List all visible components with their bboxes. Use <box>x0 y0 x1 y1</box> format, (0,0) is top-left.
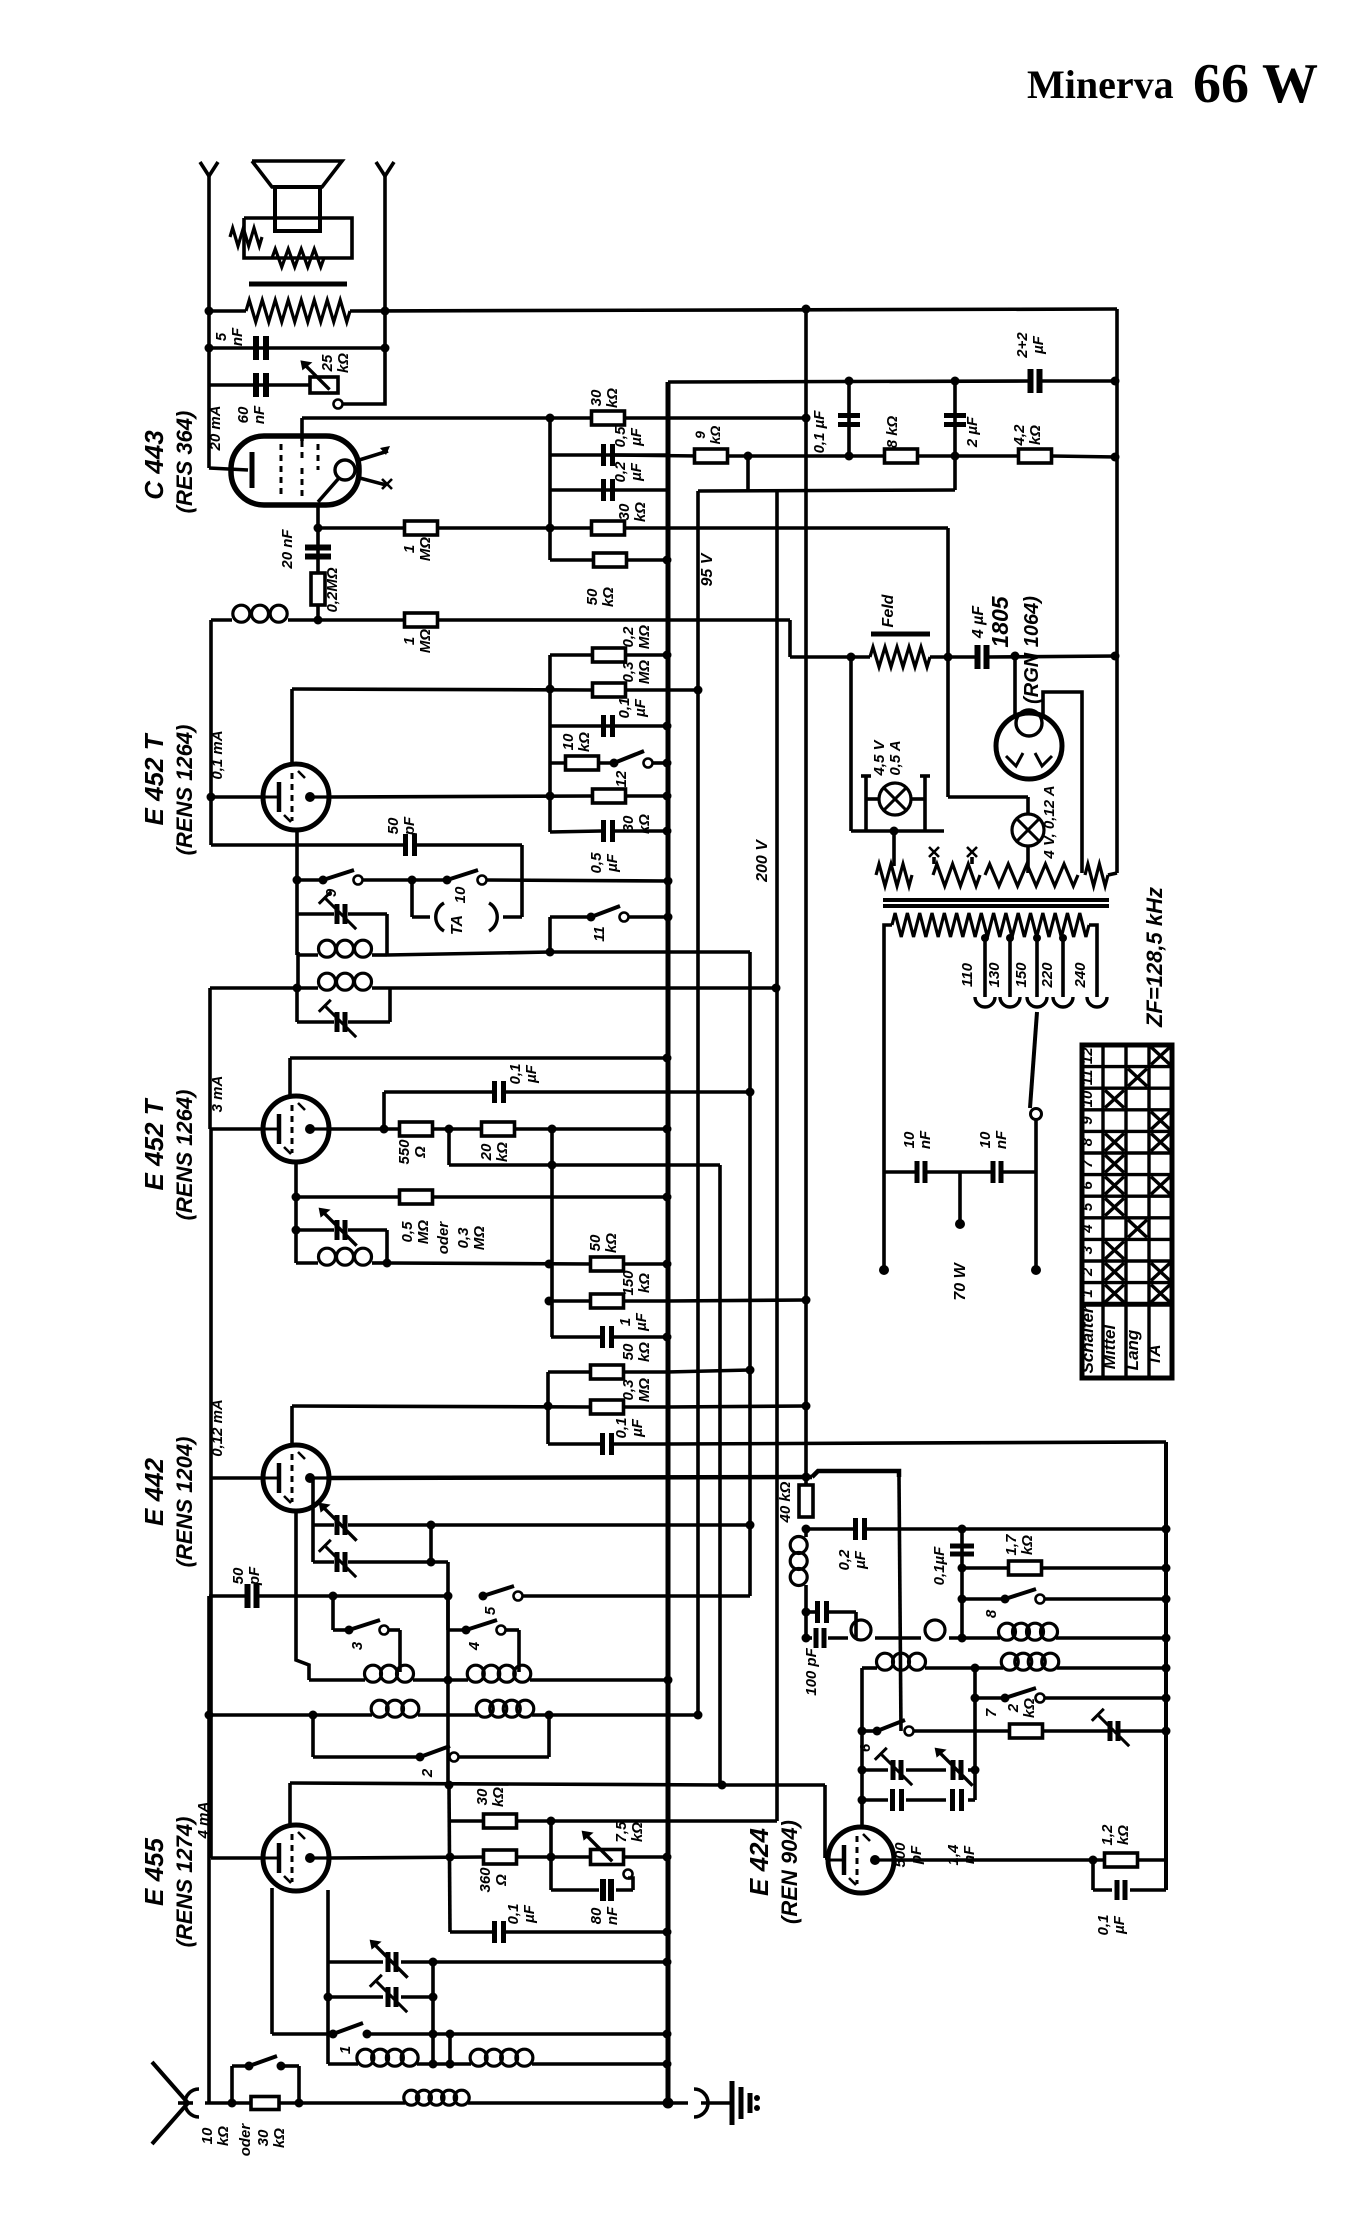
feld overbar <box>871 632 930 637</box>
svg-text:pF: pF <box>246 1566 263 1586</box>
node 698/690 <box>694 686 703 695</box>
svg-text:0,2MΩ: 0,2MΩ <box>324 567 341 612</box>
node bus 917 <box>664 913 673 922</box>
svg-text:0,5: 0,5 <box>588 852 605 874</box>
capacitor 100 pF <box>815 1601 820 1623</box>
resistor 1.2 kOhm <box>1105 1853 1138 1867</box>
node 551/1821 <box>547 1817 556 1826</box>
resistor 50 kOhm a <box>594 553 627 567</box>
line AVC x=806 <box>804 309 808 1477</box>
wire y=1932 <box>450 1930 492 1934</box>
wire y=831 <box>851 829 944 833</box>
switch 8 <box>1001 1595 1010 1604</box>
node 448/1680 <box>444 1676 453 1685</box>
svg-text:30: 30 <box>616 503 633 520</box>
padder loop left <box>311 1478 315 1562</box>
switch 11 feed <box>548 917 552 952</box>
ground bus x=668 <box>666 382 671 2103</box>
svg-text:(RENS 1274): (RENS 1274) <box>172 1817 197 1948</box>
vertical x=548 <box>546 1372 550 1444</box>
wire y=845 50pF row <box>211 843 404 847</box>
svg-text:1: 1 <box>337 2046 354 2054</box>
svg-text:nF: nF <box>993 1130 1010 1149</box>
wire left y=1129 <box>211 1127 263 1131</box>
coil D <box>476 1700 493 1717</box>
node 431/1562 <box>427 1558 436 1567</box>
prong 110 <box>975 997 995 1007</box>
svg-text:kΩ: kΩ <box>490 1787 507 1807</box>
wire y=1444 right long <box>667 1442 1166 1444</box>
wire y=1596 <box>209 1594 246 1598</box>
voice coil zigzag <box>272 249 324 267</box>
wire to earth <box>668 2101 688 2105</box>
svg-text:TA: TA <box>449 915 466 935</box>
svg-text:70 W: 70 W <box>952 1261 969 1300</box>
cathode lead E455 <box>270 1888 274 2034</box>
node 1093/1860 <box>1089 1856 1098 1865</box>
vertical x=450b <box>448 2034 452 2064</box>
wire y=1638 bandfilter top <box>806 1636 812 1640</box>
svg-text:1: 1 <box>401 637 418 645</box>
node 962/1568 <box>958 1564 967 1573</box>
trimmer IF1 <box>335 904 340 924</box>
svg-text:kΩ: kΩ <box>604 388 621 408</box>
trimmer IF2 <box>335 1012 340 1032</box>
vertical x=551 lower <box>549 1821 553 1890</box>
svg-text:3 mA: 3 mA <box>209 1076 226 1113</box>
svg-text:66 W: 66 W <box>1193 53 1318 115</box>
svg-text:4 mA: 4 mA <box>195 1802 212 1840</box>
resistor 40 kOhm <box>804 1477 808 1487</box>
IF box 3 trimmer row <box>296 1228 334 1232</box>
capacitor 0.1 uF b <box>601 715 606 737</box>
prong 150 <box>1027 997 1047 1007</box>
node bus 1058 <box>663 1054 672 1063</box>
resistor 30 kOhm d <box>484 1814 517 1828</box>
node 962/1638 <box>958 1634 967 1643</box>
svg-text:pF: pF <box>401 816 418 836</box>
svg-text:µF: µF <box>632 698 649 718</box>
tube E452T-2 <box>263 1096 329 1162</box>
coil IF2 <box>319 973 336 990</box>
TA jack arcs <box>436 903 444 931</box>
node bus 726 <box>663 722 672 731</box>
node 328/1997 <box>324 1993 333 2002</box>
node 387/1263 <box>383 1259 392 1268</box>
scale lamp branch <box>849 657 853 831</box>
resistor 30 kOhm b <box>592 521 625 535</box>
svg-text:4,2: 4,2 <box>1011 424 1028 447</box>
node bus 2064 <box>663 2060 672 2069</box>
svg-text:0,2: 0,2 <box>612 461 629 483</box>
adjust mark x1 <box>929 847 939 857</box>
svg-text:50: 50 <box>584 588 601 605</box>
node bus 1962 <box>663 1958 672 1967</box>
heater zigzag 3 <box>985 864 1078 886</box>
node 748/456 <box>744 452 753 461</box>
switch 6 <box>873 1727 882 1736</box>
capacitor 80 nF <box>600 1879 606 1901</box>
wire y=1406 <box>292 1406 591 1407</box>
svg-text:kΩ: kΩ <box>636 1273 653 1293</box>
trimmer T5 <box>891 1760 896 1780</box>
coil C <box>371 1700 388 1717</box>
svg-text:11: 11 <box>1079 1070 1096 1086</box>
svg-text:nF: nF <box>917 1130 934 1149</box>
node bus 560 <box>663 556 672 565</box>
switch 7 <box>1001 1694 1010 1703</box>
node 975/1698 <box>971 1694 980 1703</box>
grid lead E452T-2 <box>288 1058 292 1097</box>
wire y=1890 80nF row <box>551 1888 599 1892</box>
switch 1b loop <box>230 2066 234 2103</box>
wire y=1612 <box>806 1610 818 1614</box>
svg-text:Feld: Feld <box>880 593 897 627</box>
node 550/418 <box>546 414 555 423</box>
resistor 10/30 kOhm <box>251 2097 279 2110</box>
coil F <box>470 2049 487 2066</box>
resistor 1 MOhm <box>405 521 438 535</box>
resistor 550 Ohm <box>400 1122 433 1136</box>
trimmer T3 <box>386 1952 391 1972</box>
wire x=522 <box>520 845 524 917</box>
loop a <box>851 1620 871 1640</box>
wire y=455 <box>550 453 670 457</box>
trimmer T6 <box>951 1760 956 1780</box>
earth jack <box>694 2089 708 2117</box>
switch 10 <box>443 876 452 885</box>
vertical x=552 <box>550 1129 554 1337</box>
capacitor 500 pF <box>890 1789 895 1811</box>
svg-text:20: 20 <box>478 1143 495 1161</box>
prong 220 <box>1053 997 1073 1007</box>
output transformer core <box>249 282 347 287</box>
node 975/1668 <box>971 1664 980 1673</box>
svg-text:200 V: 200 V <box>754 839 771 883</box>
capacitor 0.2 uF b <box>853 1518 858 1540</box>
svg-text:40 kΩ: 40 kΩ <box>777 1481 794 1523</box>
svg-text:kΩ: kΩ <box>636 1342 653 1362</box>
node 1117/380 <box>1111 377 1120 386</box>
svg-text:µF: µF <box>1111 1915 1128 1935</box>
wire x=720 <box>718 1165 722 1785</box>
svg-text:MΩ: MΩ <box>417 629 434 653</box>
capacitor 1 uF <box>600 1326 605 1348</box>
node 550/796 <box>546 792 555 801</box>
svg-text:10: 10 <box>977 1131 994 1148</box>
table X TA <box>1151 1285 1170 1303</box>
grid lead E452T-1 <box>290 689 294 764</box>
dial lamp lead <box>1026 797 1030 814</box>
svg-text:11: 11 <box>591 926 608 942</box>
svg-text:80: 80 <box>588 1907 605 1924</box>
svg-text:10: 10 <box>1079 1090 1096 1107</box>
node bus 1197 <box>663 1193 672 1202</box>
tube C443 arrows <box>356 451 388 461</box>
svg-text:9: 9 <box>1079 1116 1096 1125</box>
wire x=431 <box>429 1525 433 1562</box>
svg-text:0,1: 0,1 <box>507 1064 524 1085</box>
node 698/1715 <box>694 1711 703 1720</box>
IF box 1 coil row <box>297 953 318 957</box>
node 948/657 <box>944 653 953 662</box>
node 333/1596 <box>329 1592 338 1601</box>
svg-text:4 V, 0,12 A: 4 V, 0,12 A <box>1041 785 1058 859</box>
tube E442 <box>263 1445 329 1511</box>
node 806/418 <box>802 414 811 423</box>
wire y=655 <box>550 653 593 657</box>
node 806/1406 <box>802 1402 811 1411</box>
svg-text:0,3: 0,3 <box>620 661 637 683</box>
switch 9 <box>319 876 328 885</box>
svg-text:µF: µF <box>521 1904 538 1924</box>
vertical x=862 <box>860 1668 864 1826</box>
output transformer primary zigzag <box>246 300 350 322</box>
svg-text:(RENS 1264): (RENS 1264) <box>172 725 197 856</box>
resistor 30 kOhm c <box>593 789 626 803</box>
antenna coil <box>404 2090 419 2105</box>
wire y=726 <box>550 724 667 728</box>
svg-text:(REN 904): (REN 904) <box>777 1820 802 1924</box>
svg-text:4,5 V: 4,5 V <box>871 738 888 776</box>
svg-text:E 442: E 442 <box>139 1457 169 1525</box>
resistor 0.3 MOhm b <box>591 1400 624 1414</box>
svg-text:Minerva: Minerva <box>1027 62 1174 107</box>
node 299/2103 <box>295 2099 304 2108</box>
trimmer padder 1 <box>335 1515 340 1535</box>
wire y=1997 <box>328 1995 383 1999</box>
wire y=1821 right <box>551 1819 777 1823</box>
node bus 1129 <box>663 1125 672 1134</box>
node 806/1529 <box>802 1525 811 1534</box>
IF box 1 right side <box>385 914 389 955</box>
svg-text:MΩ: MΩ <box>415 1220 432 1244</box>
wire x=948 down <box>946 528 950 657</box>
svg-text:0,5: 0,5 <box>399 1221 416 1243</box>
node 431/1525 <box>427 1521 436 1530</box>
wire y=1197 <box>296 1195 400 1199</box>
wire y=1596 right <box>333 1594 448 1598</box>
node bus 831 <box>663 827 672 836</box>
capacitor 0.1uF osc <box>960 1529 964 1638</box>
node speaker right <box>381 307 390 316</box>
node 449/1129 <box>445 1125 454 1134</box>
node 313/1715 <box>309 1711 318 1720</box>
svg-text:0,3: 0,3 <box>620 1379 637 1401</box>
switch 1 <box>329 2030 338 2039</box>
wire anode row E424 <box>894 1858 1105 1862</box>
node C443 bottom <box>314 524 323 533</box>
capacitor 10 nF b <box>991 1161 996 1183</box>
node 962/1529 <box>958 1525 967 1534</box>
wire y=1800 caps <box>862 1798 888 1802</box>
rectifier anode lead <box>1013 656 1017 717</box>
dropper zigzag 2 <box>933 864 980 886</box>
dropper stub <box>892 831 896 866</box>
wire to right bus <box>1137 1858 1166 1862</box>
svg-text:550: 550 <box>396 1139 413 1165</box>
wire x=901 <box>899 1477 901 1731</box>
node 550/528 <box>546 524 555 533</box>
wire y=1821 <box>450 1819 483 1823</box>
svg-text:µF: µF <box>523 1064 540 1084</box>
wire y=1165 <box>449 1163 720 1167</box>
loop b <box>925 1620 945 1640</box>
wire y=1301 right <box>667 1300 806 1301</box>
trimmer padder 2 <box>335 1552 340 1572</box>
svg-text:2+2: 2+2 <box>1014 332 1031 359</box>
wire sw4 feed <box>446 1596 450 1630</box>
wire y=1092 <box>384 1090 492 1094</box>
svg-text:4 µF: 4 µF <box>970 605 987 640</box>
node 750/1525 <box>746 1521 755 1530</box>
node 296/1230 <box>292 1226 301 1235</box>
node 412/880 <box>408 876 417 885</box>
wire y=620 corner to feld <box>788 620 792 657</box>
node 1166/1638 <box>1162 1634 1171 1643</box>
svg-text:1: 1 <box>401 545 418 553</box>
capacitor 0.2 uF <box>601 479 606 501</box>
svg-text:Ω: Ω <box>412 1146 429 1159</box>
node 384/1129 <box>380 1125 389 1134</box>
0.1uF bypass loop <box>1091 1860 1095 1890</box>
padder row 1 <box>313 1523 334 1527</box>
wire y=418 right part <box>625 416 806 420</box>
svg-text:50: 50 <box>385 817 402 834</box>
wire y=988 row <box>210 986 318 990</box>
node 750/1370 <box>746 1366 755 1375</box>
1805 right lead <box>1043 692 1082 873</box>
svg-text:10: 10 <box>199 2127 216 2144</box>
node 894/831 <box>890 827 899 836</box>
svg-text:MΩ: MΩ <box>636 1378 653 1402</box>
table X Mittel <box>1105 1285 1124 1303</box>
coil IF1 <box>319 940 336 957</box>
resistor 1.7 kOhm <box>1009 1561 1042 1575</box>
scale lamp feeds <box>864 799 868 831</box>
capacitor 5 nF <box>253 336 259 360</box>
svg-text:(RENS 1264): (RENS 1264) <box>172 1090 197 1221</box>
x=1117 vertical <box>1115 309 1119 873</box>
svg-text:µF: µF <box>1030 335 1047 355</box>
svg-text:30: 30 <box>255 2129 272 2146</box>
node 448/1596 <box>444 1592 453 1601</box>
tube 1805 <box>996 713 1062 779</box>
svg-text:30: 30 <box>588 389 605 406</box>
wire x=412 TA <box>410 880 414 917</box>
IF box 2 trimmer row <box>297 1020 334 1024</box>
resistor 50 kOhm c <box>591 1365 624 1379</box>
capacitor 2+2 uF <box>1028 369 1034 393</box>
node 296/1197 <box>292 1193 301 1202</box>
svg-text:(RENS 1204): (RENS 1204) <box>172 1437 197 1568</box>
node bus 1932 <box>663 1928 672 1937</box>
svg-text:7,5: 7,5 <box>613 1821 630 1843</box>
svg-text:110: 110 <box>959 962 976 987</box>
svg-text:0,12 mA: 0,12 mA <box>209 1399 226 1457</box>
node 433/2034 <box>429 2030 438 2039</box>
svg-text:0,3: 0,3 <box>455 1227 472 1249</box>
svg-text:0,2: 0,2 <box>620 626 637 648</box>
svg-text:1,4: 1,4 <box>945 1844 962 1866</box>
node bus 881 <box>664 877 673 886</box>
svg-text:10: 10 <box>901 1131 918 1148</box>
wire y=1599 <box>962 1597 1005 1601</box>
resistor 0.3 MOhm a <box>593 683 626 697</box>
node speaker left <box>205 307 214 316</box>
svg-text:1,2: 1,2 <box>1099 1824 1116 1846</box>
tube C443 <box>231 436 359 505</box>
node 297/880 <box>293 876 302 885</box>
switch 2 <box>416 1753 425 1762</box>
svg-text:2 µF: 2 µF <box>964 416 981 448</box>
resistor 10 kOhm <box>566 756 599 770</box>
tap 110 <box>983 938 987 997</box>
svg-text:30: 30 <box>474 1788 491 1805</box>
resistor 0.5 MOhm <box>400 1190 433 1204</box>
cathode lead E452T-2 <box>294 1163 298 1263</box>
svg-text:5: 5 <box>213 332 230 341</box>
svg-text:0,2: 0,2 <box>836 1549 853 1571</box>
capacitor bandfilter <box>814 1628 819 1648</box>
wire y=1172 mains row <box>884 1170 917 1174</box>
svg-text:50: 50 <box>230 1567 247 1584</box>
svg-text:0,1 µF: 0,1 µF <box>811 410 828 454</box>
svg-text:3: 3 <box>349 1641 366 1650</box>
node 449/1785 <box>445 1781 454 1790</box>
node 450/2064 <box>446 2060 455 2069</box>
coil A <box>365 1665 382 1682</box>
wire sw3 feed <box>331 1596 335 1630</box>
svg-text:µF: µF <box>629 1418 646 1438</box>
switch table <box>1082 1045 1172 1378</box>
node 433/1962 <box>429 1958 438 1967</box>
node bus 2034 <box>663 2030 672 2039</box>
wire y=1698 <box>975 1696 1005 1700</box>
wire y=1406 right <box>667 1406 806 1407</box>
node bus 1680 <box>664 1676 673 1685</box>
node 1166/1668 <box>1162 1664 1171 1673</box>
wire y=1372 right <box>667 1370 750 1372</box>
wire y=1962 <box>328 1960 383 1964</box>
speaker cone <box>252 161 342 187</box>
1805 cathode-filament lead <box>946 657 950 797</box>
tube E452T-1 <box>263 764 329 830</box>
tube E455 right lead <box>326 1890 330 2064</box>
dial lamp 4V 0.12A <box>1012 814 1044 846</box>
wire y=382 top <box>668 381 1030 382</box>
cathode lead E442 <box>296 1512 309 1680</box>
IF2 stub <box>296 952 300 988</box>
svg-text:150: 150 <box>620 1270 637 1296</box>
node 551/1857 <box>547 1853 556 1862</box>
wire x=449 <box>447 1129 451 1165</box>
line 95V x=698 <box>696 491 700 1715</box>
svg-text:MΩ: MΩ <box>636 625 653 649</box>
resistor 20 kOhm <box>482 1122 515 1136</box>
svg-text:1: 1 <box>1079 1289 1096 1297</box>
vertical x=550a <box>548 418 552 560</box>
coil E <box>357 2049 374 2066</box>
node y620 <box>314 616 323 625</box>
node bus 2103 end <box>663 2098 674 2109</box>
svg-text:oder: oder <box>237 2123 254 2157</box>
wire y=953 to bus <box>387 952 550 955</box>
node 232/2103 <box>228 2099 237 2108</box>
wire x=748 up <box>746 456 750 491</box>
switch 1b <box>245 2062 254 2071</box>
vertical x=433 <box>431 1962 435 2064</box>
